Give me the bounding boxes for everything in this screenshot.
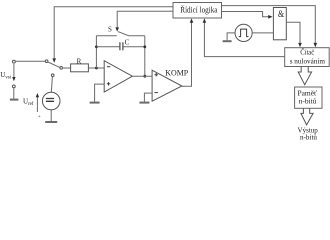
ground (integrator): [90, 102, 100, 104]
wire to input ground: [13, 88, 15, 99]
ground (generator): [223, 40, 232, 42]
svg-text:C: C: [125, 38, 130, 46]
resistor R: [71, 64, 89, 72]
svg-text:&: &: [278, 10, 285, 20]
wire comparator output to control: [182, 22, 192, 86]
switch throw node Uvst: [45, 60, 48, 63]
svg-text:s nulováním: s nulováním: [290, 57, 325, 66]
wire generator left to ground: [227, 33, 235, 40]
switch lever: [48, 62, 60, 67]
ground (comparator): [139, 102, 149, 104]
wire capacitor left: [96, 46, 119, 48]
svg-text:+: +: [38, 114, 41, 120]
svg-text:R: R: [77, 58, 82, 66]
wire S path right: [129, 35, 145, 37]
node inverting input: [95, 67, 98, 70]
capacitor C plates: [120, 42, 123, 50]
switch throw node Uref: [51, 74, 54, 77]
arrow U vst: [13, 64, 15, 78]
wire integrator + to ground: [95, 84, 105, 102]
ground (input): [10, 99, 19, 101]
arrow into control bottom (counter): [203, 18, 207, 22]
minus mark integrator: [107, 66, 110, 68]
wire control to switch S: [117, 11, 173, 28]
svg-text:Řídicí logika: Řídicí logika: [180, 4, 218, 14]
svg-text:Uref: Uref: [23, 97, 34, 107]
wire capacitor right: [123, 46, 144, 48]
node capacitor left: [95, 45, 98, 48]
node capacitor right: [143, 45, 146, 48]
svg-text:Uvst: Uvst: [0, 71, 11, 81]
op-amp integrator: [104, 61, 132, 92]
wire control to input switch: [54, 7, 173, 59]
svg-text:S: S: [108, 25, 112, 33]
switch common node: [60, 67, 63, 70]
minus mark comparator: [155, 92, 158, 94]
node integrator output: [143, 75, 146, 78]
arrow into counter top left: [298, 43, 302, 47]
plus mark comparator: [155, 73, 158, 76]
arrow into AND gate: [268, 15, 272, 19]
wire integrator output to comparator: [132, 75, 152, 77]
ground (Uref): [45, 121, 57, 123]
pulse symbol: [239, 29, 249, 36]
voltage source Uref: [42, 92, 60, 110]
svg-text:n-bitů: n-bitů: [300, 133, 317, 141]
wire S path left: [96, 35, 116, 37]
op-amp comparator: [152, 70, 182, 101]
wire comparator - to ground: [144, 93, 152, 102]
bus arrow counter to memory: [298, 67, 311, 85]
arrow at input switch: [52, 58, 56, 62]
wire input to switch: [15, 60, 45, 62]
svg-text:n-bitů: n-bitů: [299, 96, 317, 105]
switch S lever: [118, 32, 129, 36]
arrow at switch S: [115, 27, 119, 31]
plus mark integrator: [107, 82, 110, 85]
memory box: [295, 87, 322, 108]
wire AND output to counter: [286, 22, 300, 43]
bus arrow memory to output: [301, 109, 313, 125]
wire resistor to op-amp: [88, 67, 104, 69]
wire switch common to resistor: [63, 67, 71, 69]
wire feedback right vertical: [144, 36, 146, 76]
pulse generator: [235, 24, 252, 41]
wire switch to Uref source: [51, 77, 52, 93]
arrow into control bottom (comparator): [190, 18, 194, 22]
node above input ground: [12, 85, 15, 88]
arrow into counter top right: [314, 43, 318, 47]
arrow U ref: [36, 96, 38, 112]
wire counter to control: [204, 22, 284, 56]
AND gate: [273, 8, 286, 40]
wire generator to AND gate: [252, 32, 273, 34]
counter box: [285, 48, 330, 67]
svg-text:Čítač: Čítač: [300, 47, 315, 57]
wire control to AND gate: [222, 12, 269, 17]
svg-text:KOMP: KOMP: [165, 68, 188, 77]
control logic box: [173, 3, 222, 19]
wire source to ground: [50, 110, 52, 121]
wire feedback left vertical: [95, 36, 97, 68]
node input terminal: [13, 60, 16, 63]
wire control to counter reset: [222, 6, 316, 44]
